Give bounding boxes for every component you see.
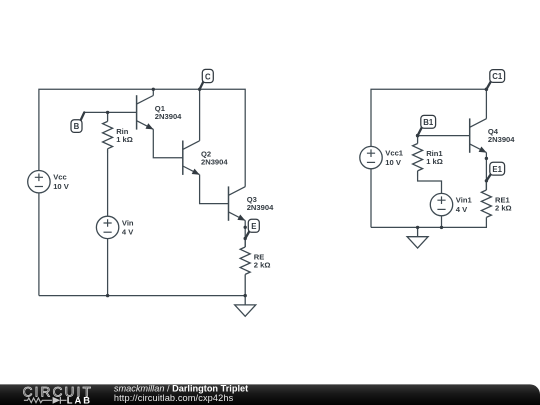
voltage source Vcc1 minus sign bbox=[367, 161, 375, 163]
wire bottom rail (right) bbox=[371, 217, 486, 227]
voltage source Vcc1 body bbox=[360, 146, 382, 168]
node E1 label bbox=[485, 162, 505, 182]
value label 10 V of Vcc bbox=[53, 182, 70, 191]
transistor Q4 base bar bbox=[469, 118, 471, 152]
node C label bbox=[198, 69, 213, 91]
svg-text:2 kΩ: 2 kΩ bbox=[254, 260, 271, 269]
svg-text:2 kΩ: 2 kΩ bbox=[495, 203, 512, 212]
value label 4 V of Vin1 bbox=[456, 205, 468, 214]
resistor RE1 bbox=[481, 181, 491, 218]
label Rin1 bbox=[426, 149, 443, 158]
credit line: author and title bbox=[114, 383, 248, 393]
wire bottom rail bbox=[39, 295, 245, 297]
svg-text:1 kΩ: 1 kΩ bbox=[426, 157, 443, 166]
label RE1 bbox=[495, 196, 511, 205]
junction Rin top / base wire bbox=[106, 111, 109, 114]
label Q4 bbox=[488, 127, 499, 136]
junction RE bottom / ground bbox=[244, 294, 247, 297]
value label 2 k&#937; of RE bbox=[254, 260, 271, 269]
junction Vin bottom / bottom rail bbox=[106, 294, 109, 297]
svg-text:B1: B1 bbox=[423, 118, 434, 127]
label Q3 bbox=[247, 195, 257, 204]
voltage source Vin1 minus sign bbox=[437, 208, 445, 210]
value label 4 V of Vin bbox=[122, 228, 134, 237]
node B1 label bbox=[416, 115, 436, 137]
value label 1 k&#937; of Rin1 bbox=[426, 157, 443, 166]
node E label bbox=[244, 219, 260, 240]
wire Vin1 bottom to bottom rail bbox=[441, 216, 443, 228]
resistor Rin bbox=[103, 112, 113, 153]
transistor Q3 emitter arrow bbox=[237, 215, 245, 221]
label Rin bbox=[116, 127, 129, 136]
svg-text:1 kΩ: 1 kΩ bbox=[116, 135, 133, 144]
transistor Q3 emitter lead bbox=[229, 212, 246, 221]
svg-text:Vin1: Vin1 bbox=[456, 196, 473, 205]
svg-text:C: C bbox=[205, 72, 211, 81]
svg-text:10 V: 10 V bbox=[385, 158, 402, 167]
label Q2 bbox=[201, 149, 211, 158]
value label 2 k&#937; of RE1 bbox=[495, 203, 512, 212]
value label 2N3904 of Q1 bbox=[155, 112, 182, 121]
svg-text:E1: E1 bbox=[492, 165, 502, 174]
svg-text:LAB: LAB bbox=[67, 394, 92, 405]
label Vin bbox=[122, 218, 134, 227]
transistor Q1 base bar bbox=[136, 95, 138, 129]
svg-text:Vin: Vin bbox=[122, 218, 134, 227]
label Vcc bbox=[53, 173, 67, 182]
voltage source Vin1 plus sign bbox=[437, 196, 445, 204]
credit line: URL bbox=[114, 393, 234, 403]
wire node B to Q1 base bbox=[84, 111, 136, 113]
voltage source Vcc plus sign bbox=[35, 174, 43, 182]
wire Q2 collector stub bbox=[199, 89, 201, 141]
node C1 label bbox=[485, 70, 505, 91]
voltage source Vin1 body bbox=[430, 193, 452, 215]
wire Rin bottom to Vin top bbox=[107, 153, 109, 216]
transistor Q4 emitter arrow bbox=[479, 147, 487, 153]
voltage source Vcc body bbox=[28, 171, 50, 193]
svg-text:http://circuitlab.com/cxp42hs: http://circuitlab.com/cxp42hs bbox=[114, 393, 234, 403]
label Vin1 bbox=[456, 196, 473, 205]
CircuitLab logo wordmark CIRCUIT bbox=[23, 384, 93, 399]
transistor Q2 emitter arrow bbox=[192, 169, 200, 175]
value label 2N3904 of Q3 bbox=[247, 203, 274, 212]
transistor Q2 emitter lead bbox=[183, 166, 200, 175]
resistor RE bbox=[240, 239, 250, 296]
CircuitLab logo diode symbol bbox=[53, 397, 67, 404]
wire Vcc bottom to bottom rail bbox=[38, 193, 40, 296]
value label 2N3904 of Q4 bbox=[488, 135, 515, 144]
wire Q4 emitter to RE1 bbox=[485, 153, 487, 191]
junction Q4 emitter terminal bbox=[485, 157, 488, 160]
node B label bbox=[71, 112, 84, 132]
junction C1 corner / Q4 collector bbox=[485, 88, 488, 91]
svg-text:4 V: 4 V bbox=[122, 228, 134, 237]
svg-text:Vcc: Vcc bbox=[53, 173, 67, 182]
label Vcc1 bbox=[385, 149, 404, 158]
ground (left circuit) bbox=[235, 296, 256, 317]
svg-text:E: E bbox=[251, 222, 256, 231]
junction Q1 collector / top rail bbox=[152, 88, 155, 91]
label RE bbox=[254, 253, 265, 262]
wire Q1 collector stub bbox=[152, 89, 154, 95]
transistor Q3 collector lead bbox=[229, 187, 246, 196]
wire top rail Q1 collector to node C bbox=[153, 88, 199, 90]
svg-text:2N3904: 2N3904 bbox=[247, 203, 274, 212]
svg-text:B: B bbox=[74, 122, 80, 131]
svg-text:2N3904: 2N3904 bbox=[155, 112, 182, 121]
wire Q3 emitter to RE bbox=[244, 221, 246, 248]
footer bar background bbox=[0, 384, 540, 405]
label Q1 bbox=[155, 104, 166, 113]
svg-text:2N3904: 2N3904 bbox=[488, 135, 515, 144]
wire C1 corner down to Q4 collector bbox=[485, 89, 487, 118]
transistor Q1 emitter lead bbox=[137, 121, 154, 130]
svg-text:C1: C1 bbox=[492, 72, 503, 81]
transistor Q4 emitter lead bbox=[470, 144, 487, 153]
wire Rin1 bottom to Vin1 top bbox=[418, 177, 442, 194]
svg-text:smackmillan / Darlington Tripl: smackmillan / Darlington Triplet bbox=[114, 383, 248, 393]
transistor Q3 base bar bbox=[228, 186, 230, 220]
wire Vcc top to top rail bbox=[39, 89, 153, 170]
voltage source Vcc minus sign bbox=[35, 186, 43, 188]
wire Q1 emitter to Q2 base bbox=[153, 129, 183, 157]
junction Q3 emitter terminal bbox=[244, 226, 247, 229]
resistor Rin1 bbox=[413, 136, 423, 177]
wire top rail node C to Q3 collector drop bbox=[200, 89, 246, 186]
transistor Q4 collector lead bbox=[470, 119, 487, 128]
svg-text:10 V: 10 V bbox=[53, 182, 70, 191]
voltage source Vcc1 plus sign bbox=[367, 149, 375, 157]
junction ground / bottom rail right bbox=[416, 226, 419, 229]
wire Vin bottom to bottom rail bbox=[107, 239, 109, 296]
svg-text:2N3904: 2N3904 bbox=[201, 157, 228, 166]
wire Vcc1 top to top rail to C1 corner bbox=[371, 89, 486, 146]
svg-text:Vcc1: Vcc1 bbox=[385, 149, 404, 158]
voltage source Vin plus sign bbox=[104, 219, 112, 227]
CircuitLab logo wordmark LAB bbox=[67, 394, 92, 405]
value label 2N3904 of Q2 bbox=[201, 157, 228, 166]
transistor Q1 emitter arrow bbox=[146, 123, 154, 129]
CircuitLab logo resistor zigzag bbox=[24, 398, 52, 403]
wire Vcc1 bottom to bottom rail bbox=[370, 169, 372, 228]
transistor Q1 collector lead bbox=[137, 96, 154, 105]
junction B1 / Rin1 top bbox=[416, 134, 419, 137]
junction Vin1 bottom / bottom rail right bbox=[440, 226, 443, 229]
transistor Q2 base bar bbox=[182, 141, 184, 175]
voltage source Vin minus sign bbox=[104, 231, 112, 233]
voltage source Vin body bbox=[96, 216, 118, 238]
value label 1 k&#937; of Rin bbox=[116, 135, 133, 144]
wire node B1 to Q4 base bbox=[418, 135, 470, 137]
svg-text:4 V: 4 V bbox=[456, 205, 468, 214]
ground (right circuit) bbox=[407, 227, 428, 248]
value label 10 V of Vcc1 bbox=[385, 158, 402, 167]
wire Q2 emitter to Q3 base bbox=[200, 175, 229, 204]
transistor Q2 collector lead bbox=[183, 141, 200, 150]
